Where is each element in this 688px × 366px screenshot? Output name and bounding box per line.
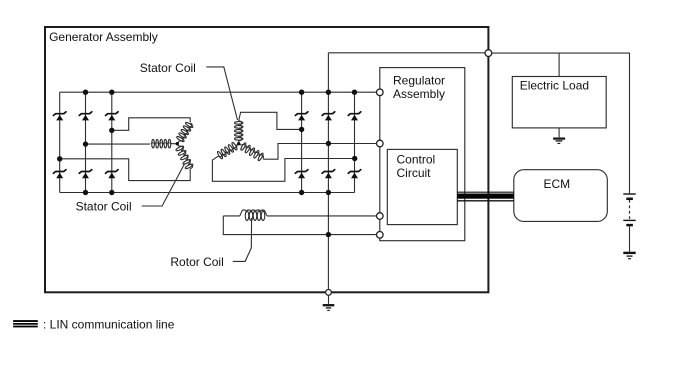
svg-text:Regulator: Regulator xyxy=(393,74,445,88)
svg-text:Circuit: Circuit xyxy=(397,166,432,180)
svg-text:: LIN communication line: : LIN communication line xyxy=(43,318,175,332)
svg-text:Electric Load: Electric Load xyxy=(520,79,589,93)
svg-text:Generator Assembly: Generator Assembly xyxy=(49,30,158,44)
svg-text:Stator Coil: Stator Coil xyxy=(76,200,132,214)
svg-text:ECM: ECM xyxy=(544,177,571,191)
svg-text:Control: Control xyxy=(397,152,436,166)
svg-text:Assembly: Assembly xyxy=(393,87,445,101)
svg-text:Stator Coil: Stator Coil xyxy=(140,61,196,75)
svg-text:Rotor Coil: Rotor Coil xyxy=(170,255,223,269)
